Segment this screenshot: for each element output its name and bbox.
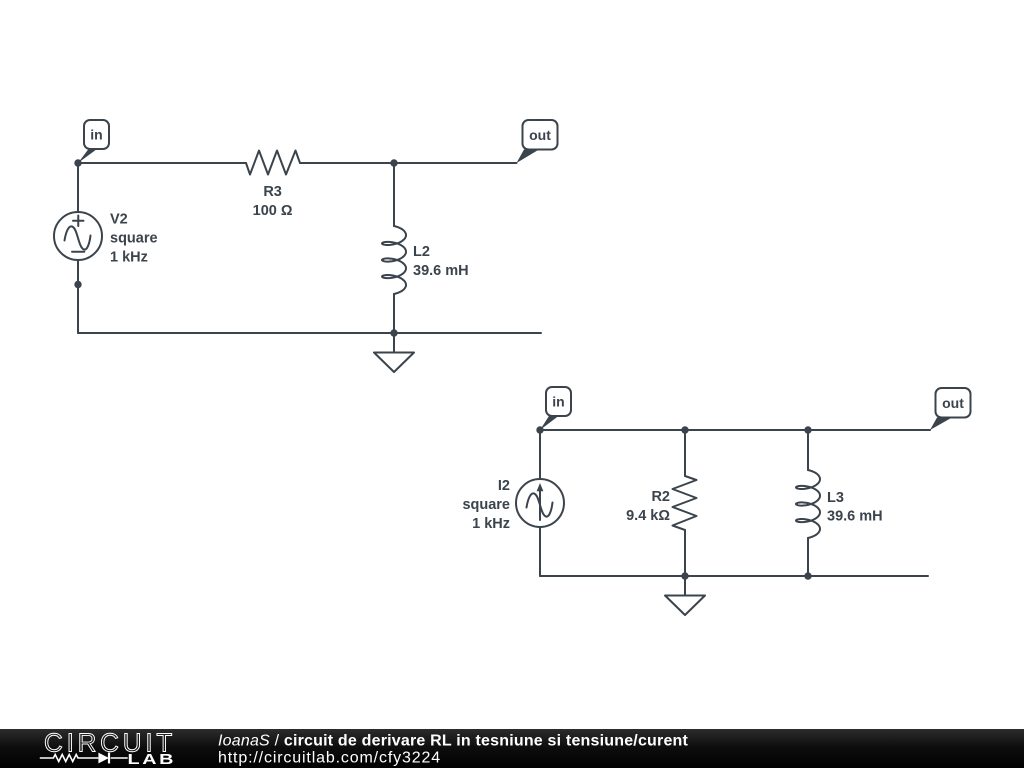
logo schematic line	[40, 753, 128, 764]
flag in circuit 2	[540, 387, 571, 430]
node V2 bottom joint	[74, 281, 81, 288]
wire L3 bottom	[807, 538, 809, 576]
ground circuit 2	[684, 576, 686, 596]
wire V2 bottom	[77, 260, 79, 333]
node R2 top	[681, 426, 688, 433]
svg-text:9.4 kΩ: 9.4 kΩ	[626, 508, 670, 524]
wire R2 top	[684, 430, 686, 476]
wire V2 top	[77, 163, 79, 212]
resistor R3	[246, 151, 300, 175]
svg-text:V2: V2	[110, 212, 128, 228]
svg-text:in: in	[552, 394, 564, 410]
resistor R2	[673, 476, 697, 530]
node L3 top	[804, 426, 811, 433]
ground circuit 1	[393, 333, 395, 353]
wire bottom rail circuit 1	[78, 332, 541, 334]
svg-text:in: in	[90, 127, 102, 143]
svg-text:square: square	[110, 231, 158, 247]
svg-text:100 Ω: 100 Ω	[253, 203, 293, 219]
svg-text:L3: L3	[827, 490, 844, 506]
wire I2 bottom	[539, 527, 541, 576]
svg-text:L2: L2	[413, 244, 430, 260]
inductor L2	[382, 226, 406, 294]
node L3 bottom	[804, 572, 811, 579]
flag in circuit 1	[78, 120, 109, 163]
logo diode	[98, 753, 109, 764]
node in circuit 2	[536, 426, 543, 433]
wire L3 top	[807, 430, 809, 470]
wire L2 bottom	[393, 294, 395, 333]
wire bottom rail circuit 2	[540, 575, 928, 577]
svg-text:39.6 mH: 39.6 mH	[413, 263, 469, 279]
wire top rail circuit 2	[540, 429, 930, 431]
svg-text:R3: R3	[263, 184, 282, 200]
wire top rail circuit 1	[78, 162, 246, 164]
svg-text:out: out	[529, 127, 551, 143]
svg-text:R2: R2	[651, 489, 670, 505]
wire I2 top	[539, 430, 541, 479]
wire R2 bottom	[684, 530, 686, 576]
inductor L3	[796, 470, 820, 538]
svg-text:square: square	[462, 497, 510, 513]
flag out circuit 2	[930, 388, 971, 430]
svg-text:I2: I2	[498, 478, 510, 494]
node junction R3/L2	[390, 159, 397, 166]
svg-text:IoanaS / circuit de derivare R: IoanaS / circuit de derivare RL in tesni…	[218, 733, 689, 750]
node R2 bottom	[681, 572, 688, 579]
voltage source V2	[54, 212, 102, 260]
wire	[300, 162, 517, 164]
svg-text:1 kHz: 1 kHz	[110, 250, 148, 266]
flag out circuit 1	[517, 120, 558, 163]
svg-text:http://circuitlab.com/cfy3224: http://circuitlab.com/cfy3224	[218, 750, 441, 767]
svg-text:39.6 mH: 39.6 mH	[827, 509, 883, 525]
svg-text:1 kHz: 1 kHz	[472, 516, 510, 532]
wire L2 top	[393, 163, 395, 226]
svg-text:out: out	[942, 395, 964, 411]
current source I2	[516, 479, 564, 527]
node in circuit 1	[74, 159, 81, 166]
node ground circuit 1	[390, 329, 397, 336]
svg-text:LAB: LAB	[128, 750, 177, 767]
